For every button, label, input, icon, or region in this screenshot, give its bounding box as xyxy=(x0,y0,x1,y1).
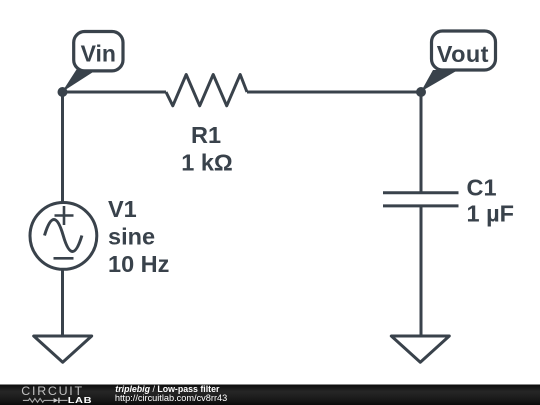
CircuitLab logo diode bar xyxy=(58,398,60,403)
V1 plus sign xyxy=(55,206,74,225)
svg-text:1 kΩ: 1 kΩ xyxy=(181,150,233,176)
voltage source V1 body xyxy=(30,203,97,270)
wire: capacitor C1 bottom plate to ground xyxy=(420,206,423,336)
resistor R1 xyxy=(166,75,247,106)
net label Vin callout tail xyxy=(62,70,97,93)
V1 sine waveform symbol xyxy=(45,220,82,252)
svg-text:R1: R1 xyxy=(191,122,221,148)
footer bar xyxy=(0,385,540,405)
V1 minus sign xyxy=(54,257,74,260)
svg-text:Vin: Vin xyxy=(81,41,116,67)
CircuitLab logo wire to LAB xyxy=(60,399,68,401)
wire: node Vin down to V1 top terminal xyxy=(61,92,64,203)
wire: node Vin to resistor R1 left lead xyxy=(63,91,167,94)
ground (right) xyxy=(391,336,449,362)
svg-text:LAB: LAB xyxy=(68,396,93,405)
svg-text:Vout: Vout xyxy=(437,41,489,67)
svg-text:1 µF: 1 µF xyxy=(467,201,515,227)
net label Vout callout tail xyxy=(421,70,458,92)
ground (left) xyxy=(34,336,92,362)
svg-text:http://circuitlab.com/cv8rr43: http://circuitlab.com/cv8rr43 xyxy=(115,393,227,403)
net label Vout box xyxy=(432,31,496,70)
CircuitLab logo diode doodle xyxy=(54,398,59,403)
net label Vin box xyxy=(74,32,123,71)
CircuitLab logo resistor doodle xyxy=(23,399,54,403)
wire: V1 bottom terminal to ground xyxy=(61,269,64,336)
node Vin (junction dot) xyxy=(58,87,68,97)
capacitor C1 bottom plate xyxy=(383,204,459,207)
wire: node Vout down to capacitor C1 top plate xyxy=(420,92,423,193)
svg-text:10 Hz: 10 Hz xyxy=(108,251,169,277)
svg-text:sine: sine xyxy=(108,224,155,250)
svg-text:C1: C1 xyxy=(467,175,497,201)
capacitor C1 top plate xyxy=(383,191,459,194)
svg-text:V1: V1 xyxy=(108,196,137,222)
node Vout (junction dot) xyxy=(416,87,426,97)
wire: resistor R1 right lead to node Vout xyxy=(247,91,421,94)
